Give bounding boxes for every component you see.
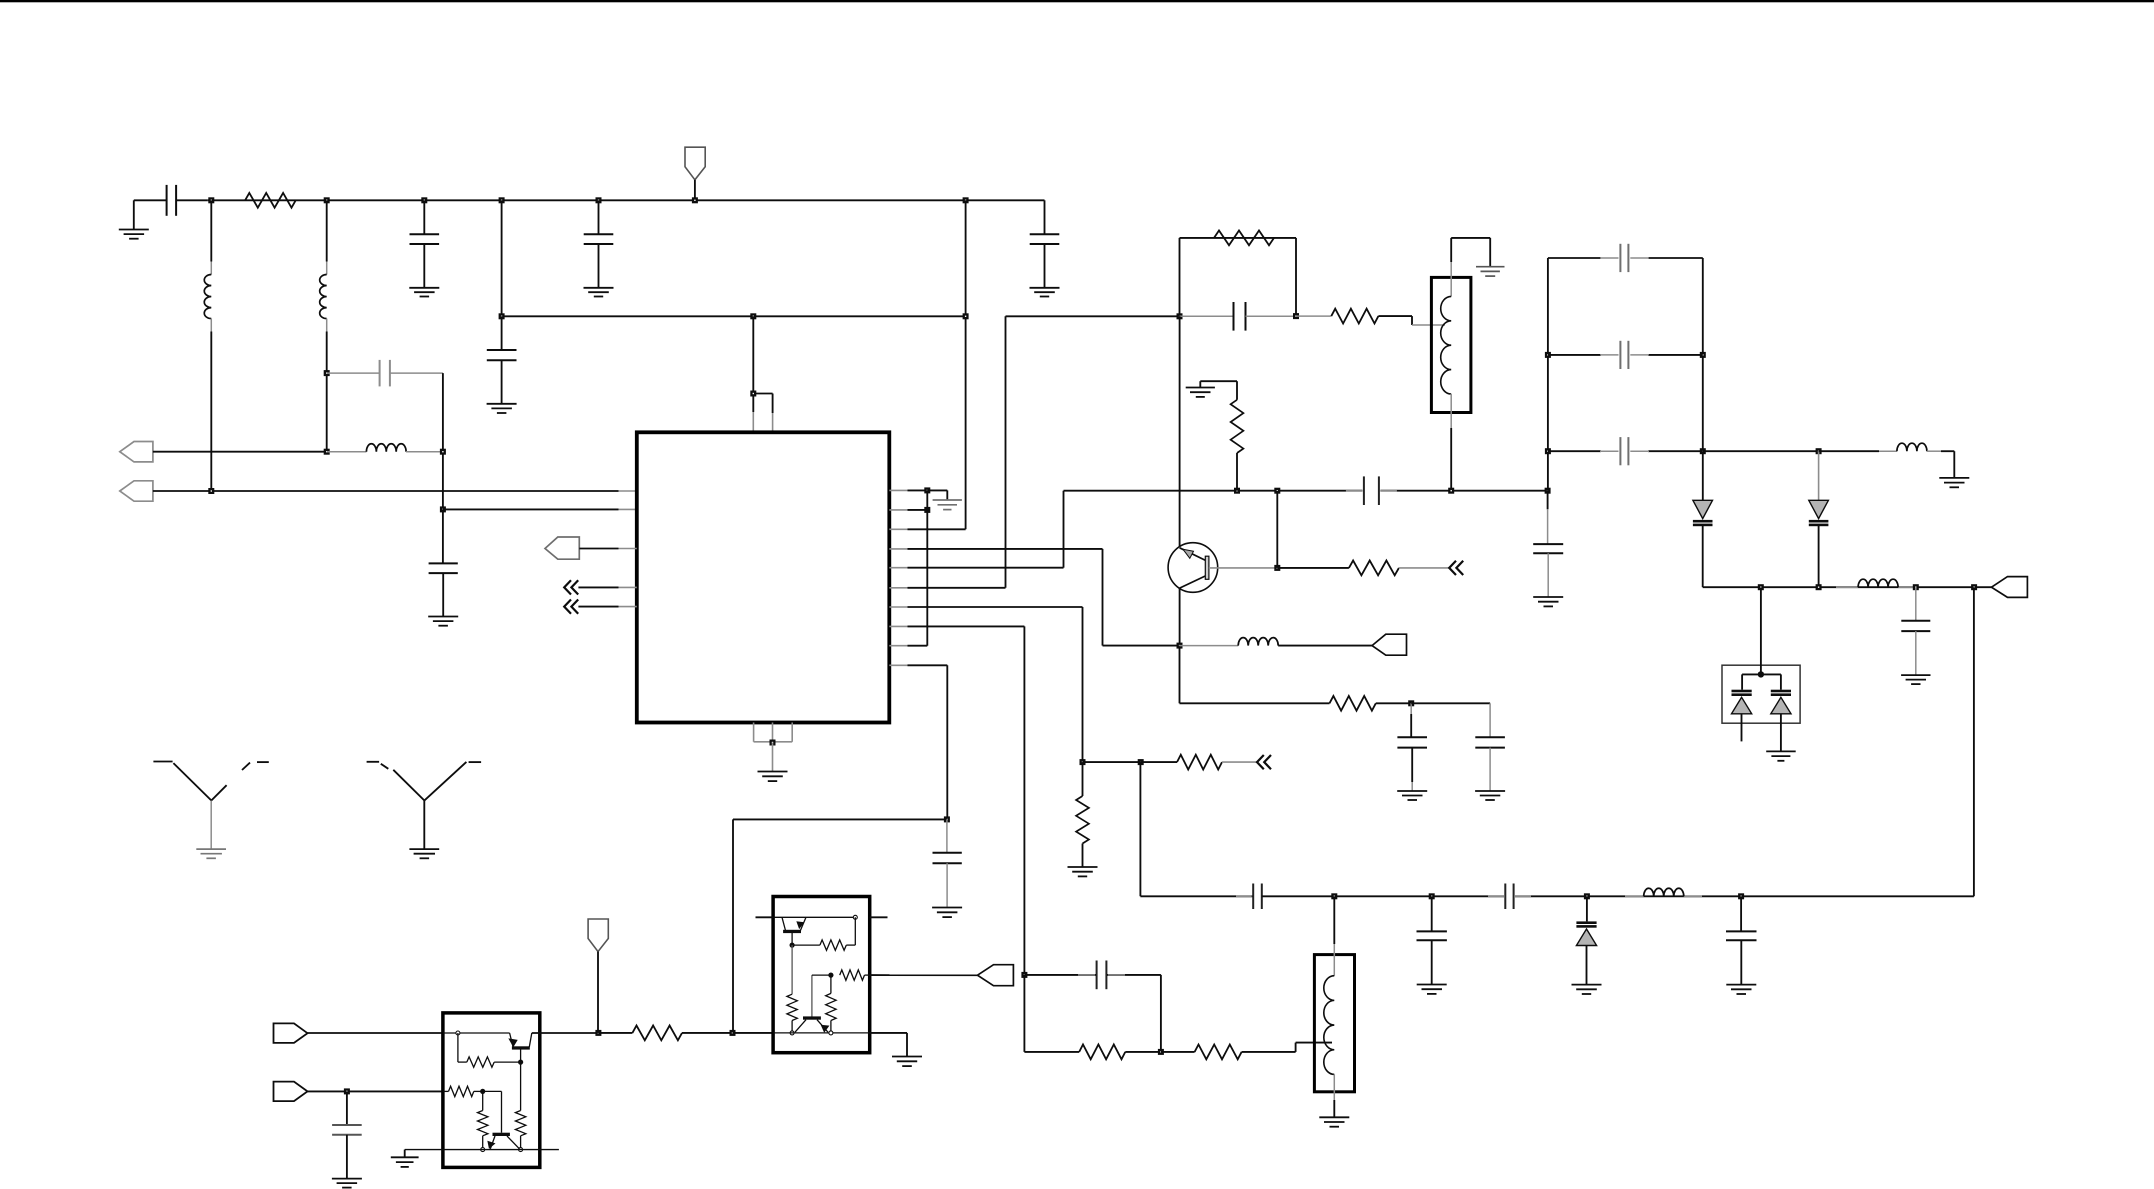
resistor R3 <box>1296 315 1331 317</box>
node J32 <box>1448 488 1454 494</box>
node J35 <box>1545 448 1551 454</box>
transistor box B2 <box>773 897 870 1053</box>
IC bottom pins <box>753 723 755 742</box>
node J2 <box>324 197 330 203</box>
node dot <box>1758 671 1764 677</box>
ground <box>1572 984 1602 986</box>
ground <box>1533 596 1563 598</box>
node J8 <box>208 488 214 494</box>
capacitor C21 <box>1488 895 1504 897</box>
wire in-box <box>443 1032 510 1034</box>
pin 9 <box>889 645 907 647</box>
node J40 <box>1816 584 1822 590</box>
node J9 <box>324 370 330 376</box>
node J15 <box>963 313 969 319</box>
wire <box>812 974 831 976</box>
ground <box>1766 750 1796 752</box>
node J47 <box>595 1030 601 1036</box>
wire pin L2 <box>443 508 619 510</box>
resistor R5 <box>1277 567 1349 569</box>
node J6 <box>692 197 698 203</box>
wire main1033 <box>308 1032 444 1034</box>
node J21 <box>1293 313 1299 319</box>
capacitor C4 <box>1044 200 1046 234</box>
node J27 <box>730 1030 736 1036</box>
wire <box>1160 975 1162 1052</box>
wire <box>1378 315 1412 317</box>
transistor Q5 <box>1179 316 1181 547</box>
node J37 <box>1700 448 1706 454</box>
top border bar <box>0 0 2154 2</box>
capacitor C22 <box>1740 896 1742 931</box>
node J31 <box>1234 488 1240 494</box>
wire net490 <box>1064 490 1363 492</box>
node J17 <box>924 487 930 493</box>
node J5 <box>596 197 602 203</box>
capacitor C23 <box>346 1091 348 1125</box>
node J12 <box>440 506 446 512</box>
ground <box>1939 477 1969 479</box>
node J33 <box>1545 488 1551 494</box>
node J13 <box>499 313 505 319</box>
ground <box>1397 790 1427 792</box>
wire coil top <box>1451 237 1490 239</box>
capacitor C5 <box>327 372 379 374</box>
wire <box>733 1032 774 1034</box>
ground <box>584 287 614 289</box>
ground <box>404 1150 406 1158</box>
wire feedback <box>1179 238 1181 316</box>
port P6 <box>1992 577 2028 598</box>
wire <box>308 1090 443 1092</box>
node J22 <box>1080 759 1086 765</box>
port P7 <box>1372 634 1407 655</box>
inductor box L9 <box>1314 955 1354 1092</box>
inductor box L4 <box>1431 277 1471 412</box>
resistor R8 + ground <box>1082 762 1084 796</box>
wire capbank rails <box>1547 258 1549 491</box>
resistor R4 + ground <box>1199 381 1201 387</box>
pin 6 <box>889 587 907 589</box>
node dot <box>518 1060 523 1065</box>
ground <box>892 1056 922 1058</box>
capacitor C7 <box>501 316 503 350</box>
pin 1 <box>889 489 907 491</box>
ground <box>428 616 458 618</box>
diode D1 <box>1693 500 1713 518</box>
node J26 <box>944 816 950 822</box>
wire <box>1973 587 1975 896</box>
wire bottom <box>405 1149 559 1151</box>
wire <box>1082 607 1084 762</box>
wire tap <box>1242 1051 1296 1053</box>
port P1 <box>120 442 153 462</box>
node J16 <box>750 391 756 397</box>
pin 3 <box>889 528 907 530</box>
power flag VCC2 <box>588 919 608 952</box>
wire <box>578 586 618 588</box>
wire <box>153 451 327 453</box>
ground <box>1417 984 1447 986</box>
wire IC top pin <box>752 316 754 412</box>
node J34 <box>1545 352 1551 358</box>
node J20 <box>1177 313 1183 319</box>
capacitor C6 <box>442 509 444 563</box>
wire in-box B <box>773 1032 870 1034</box>
node J45 <box>1584 893 1590 899</box>
resistor R1 <box>245 193 296 208</box>
wire stub A <box>756 916 774 918</box>
wire <box>1083 761 1141 763</box>
transistor Q4 <box>811 975 813 1018</box>
ground <box>1475 790 1505 792</box>
varactor V2 <box>1761 673 1781 675</box>
wire in-box2 <box>443 1090 449 1092</box>
node J18 <box>924 507 930 513</box>
node J46 <box>1738 893 1744 899</box>
pin 8 <box>889 625 907 627</box>
inductor L8 + port <box>1180 645 1239 647</box>
capacitor C1 <box>134 199 166 201</box>
node J36 <box>1700 352 1706 358</box>
resistor R19 <box>840 970 865 980</box>
inductor L7 <box>1625 895 1644 897</box>
port P5 <box>978 965 1014 986</box>
ground <box>133 200 135 229</box>
wire net588 <box>1703 586 1992 588</box>
pin 2 <box>889 509 907 511</box>
wire <box>946 665 948 819</box>
node J48 <box>344 1088 350 1094</box>
chevron CH3 <box>1449 561 1456 575</box>
wire net896 <box>1139 762 1141 896</box>
resistor R13 <box>449 1086 474 1096</box>
ground pin1 <box>927 489 947 491</box>
wire <box>1276 491 1278 568</box>
transistor box B1 <box>443 1013 540 1168</box>
node J4 <box>499 197 505 203</box>
wire <box>578 606 618 608</box>
transistor Q2 <box>483 1090 502 1092</box>
wire <box>153 490 619 492</box>
capacitor C13 <box>1024 974 1096 976</box>
port P3 <box>545 537 579 559</box>
node J7 <box>963 197 969 203</box>
antenna A1 <box>153 761 172 763</box>
node J28 <box>1408 700 1414 706</box>
node J24 <box>1021 972 1027 978</box>
inductor L2 <box>326 200 328 261</box>
chevron CH4 <box>1257 755 1264 769</box>
resistor R18 <box>830 975 832 993</box>
resistor R10 <box>1161 1051 1195 1053</box>
IC U1 <box>637 432 890 722</box>
resistor R9 <box>1023 975 1025 1052</box>
capacitor C10 <box>1411 702 1490 704</box>
node J41 <box>1913 584 1919 590</box>
diode D2 <box>1818 451 1820 500</box>
resistor R15 <box>598 1032 632 1034</box>
wire <box>326 332 328 452</box>
node J38 <box>1816 448 1822 454</box>
capacitor C12 <box>1547 491 1549 510</box>
ground <box>332 1178 362 1180</box>
ground <box>1030 287 1060 289</box>
pin 5 <box>889 567 907 569</box>
transistor Q1 <box>510 1033 513 1047</box>
wire pin2-pin9 <box>926 490 928 645</box>
node J3 <box>421 197 427 203</box>
capacitor C14 <box>946 819 948 852</box>
inductor L5 <box>1819 450 1879 452</box>
node J11 <box>440 449 446 455</box>
ground <box>1726 984 1756 986</box>
ground <box>409 287 439 289</box>
node J1 <box>208 197 214 203</box>
resistor R2 <box>1214 231 1274 246</box>
node J44 <box>1429 893 1435 899</box>
wire <box>791 945 793 994</box>
wire <box>210 332 212 492</box>
resistor R16 <box>791 932 793 945</box>
diode box B3 <box>1722 665 1800 723</box>
inductor L9 <box>1333 896 1335 944</box>
pin 7 <box>889 606 907 608</box>
ground <box>1068 866 1098 868</box>
wire <box>579 548 618 550</box>
node J25 <box>1158 1049 1164 1055</box>
wire rail1 <box>208 199 1045 201</box>
antenna A2 <box>367 761 380 763</box>
wire <box>1102 549 1104 646</box>
resistor R12 <box>520 1062 522 1110</box>
node J30 <box>1274 488 1280 494</box>
capacitor C8 <box>1180 315 1233 317</box>
varactor V1 <box>1742 673 1761 675</box>
chevron CH2 <box>564 600 571 614</box>
ground <box>1901 674 1930 676</box>
pin 4 <box>889 548 907 550</box>
wire net452 <box>1703 450 1819 452</box>
pin 10 <box>889 664 907 666</box>
ground <box>932 907 962 909</box>
resistor R17 <box>787 994 797 1020</box>
resistor R7 <box>1141 761 1177 763</box>
capacitor C20 <box>1431 896 1433 931</box>
wire <box>1063 491 1065 568</box>
ground <box>487 403 517 405</box>
inductor L3 <box>327 451 367 453</box>
wire <box>1023 626 1025 975</box>
ground <box>1476 266 1505 268</box>
node J42 <box>1971 584 1977 590</box>
ground IC <box>772 743 774 772</box>
resistor R6 <box>1330 696 1376 711</box>
wire <box>733 818 947 820</box>
wire <box>442 373 444 509</box>
inductor L1 <box>210 200 212 261</box>
capacitor C17 <box>1600 450 1619 452</box>
wire rail2 <box>501 200 503 316</box>
capacitor C9 <box>1376 702 1411 704</box>
wire collector out <box>1179 646 1181 704</box>
wire <box>457 1033 459 1062</box>
wire <box>1760 588 1762 675</box>
resistor R14 <box>482 1091 484 1110</box>
node J19 <box>1177 643 1183 649</box>
capacitor C15 <box>1600 257 1619 259</box>
wire to port <box>870 974 978 976</box>
node J43 <box>1331 893 1337 899</box>
inductor L6 <box>1836 586 1858 588</box>
port P2 <box>120 481 153 501</box>
port P3 <box>274 1023 308 1043</box>
wire <box>1005 316 1007 588</box>
node dot <box>480 1089 485 1094</box>
chevron CH1 <box>564 580 571 594</box>
node J29 <box>1274 565 1280 571</box>
capacitor C16 <box>1600 354 1619 356</box>
node J-icgnd <box>770 740 776 746</box>
capacitor C11 <box>1346 490 1363 492</box>
base wire <box>1209 567 1277 569</box>
varactor V3 <box>1586 896 1588 921</box>
inductor L4 <box>1450 238 1452 262</box>
node J39 <box>1758 584 1764 590</box>
node J23 <box>1138 759 1144 765</box>
port P4 <box>274 1082 308 1102</box>
capacitor C18 <box>1915 587 1917 621</box>
capacitor C2 <box>423 200 425 234</box>
power flag VCC1 <box>685 147 705 180</box>
transistor Q3 <box>773 916 806 918</box>
node J10 <box>324 449 330 455</box>
wire <box>854 917 856 945</box>
ground <box>1319 1116 1349 1118</box>
capacitor C19 <box>1236 895 1252 897</box>
capacitor C3 <box>598 200 600 234</box>
node J14 <box>750 313 756 319</box>
wire + ground <box>870 1032 907 1034</box>
resistor R11 <box>467 1057 494 1067</box>
